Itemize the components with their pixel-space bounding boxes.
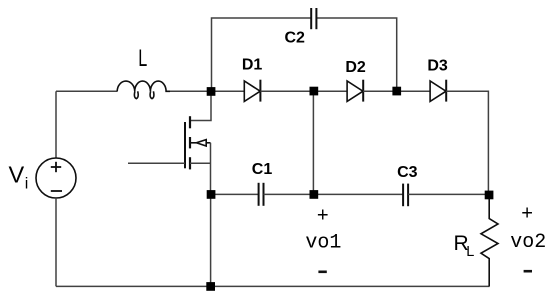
wire node to C3 bbox=[314, 193, 403, 195]
transistor Q1 source wire bbox=[190, 143, 211, 195]
wire bottom rail bbox=[56, 285, 490, 287]
wire D1 to D2 bbox=[260, 90, 347, 92]
wire left rail upper bbox=[55, 91, 57, 158]
wire D3 to load node bbox=[446, 91, 488, 195]
svg-text:+: + bbox=[317, 206, 329, 229]
diode D2 bbox=[347, 80, 363, 102]
svg-text:D2: D2 bbox=[345, 59, 366, 76]
svg-text:C2: C2 bbox=[284, 30, 305, 47]
label vo2 minus bbox=[524, 270, 532, 273]
svg-text:vo2: vo2 bbox=[510, 231, 546, 254]
diode D1 bbox=[244, 80, 260, 102]
wire main rail left bbox=[56, 90, 118, 92]
svg-text:L: L bbox=[138, 45, 147, 72]
label D2 bbox=[345, 59, 366, 76]
svg-text:+: + bbox=[521, 204, 533, 227]
label Vi bbox=[9, 162, 29, 193]
svg-text:C1: C1 bbox=[252, 161, 273, 178]
resistor RL bbox=[481, 195, 498, 286]
capacitor C2 bbox=[311, 8, 316, 29]
svg-text:i: i bbox=[25, 176, 29, 193]
svg-text:D1: D1 bbox=[242, 57, 263, 74]
node D: source-C1 junction bbox=[207, 190, 216, 199]
wire source node to bottom rail bbox=[210, 194, 212, 286]
svg-text:C3: C3 bbox=[397, 164, 418, 181]
transistor Q1 drain wire bbox=[190, 92, 211, 121]
voltage source minus sign bbox=[51, 190, 62, 192]
svg-text:D3: D3 bbox=[427, 58, 448, 75]
transistor Q1 gate bar bbox=[184, 122, 186, 168]
transistor Q1 channel segments bbox=[189, 116, 191, 169]
label C3 bbox=[397, 164, 418, 181]
svg-text:vo1: vo1 bbox=[305, 232, 341, 255]
node C: D2-D3 junction bbox=[392, 87, 401, 96]
label L bbox=[138, 45, 147, 72]
wire top rail right bbox=[317, 18, 397, 91]
capacitor C3 bbox=[403, 184, 408, 207]
wire D1 node to C1 node bbox=[312, 91, 314, 194]
wire top rail left bbox=[212, 18, 312, 92]
label vo2 bbox=[510, 231, 546, 254]
label C2 bbox=[284, 30, 305, 47]
label C1 bbox=[252, 161, 273, 178]
wire mid rail to C1 bbox=[211, 193, 258, 195]
label RL bbox=[454, 232, 475, 260]
transistor Q1 gate lead bbox=[128, 162, 185, 164]
label vo2 plus bbox=[521, 204, 533, 227]
node E: C1-C3 junction bbox=[310, 190, 319, 199]
label D1 bbox=[242, 57, 263, 74]
svg-text:L: L bbox=[466, 244, 474, 260]
capacitor C1 bbox=[259, 183, 264, 206]
wire left rail lower bbox=[55, 198, 57, 286]
node G: bottom rail junction bbox=[206, 282, 215, 291]
node A: inductor-D1-top-drain junction bbox=[207, 87, 216, 96]
wire C1 to node bbox=[264, 193, 314, 195]
wire C3 to load node bbox=[408, 193, 489, 195]
wire inductor to D1 bbox=[170, 90, 244, 92]
node B: D1-D2 junction bbox=[310, 87, 319, 96]
transistor Q1 body arrow bbox=[190, 140, 211, 146]
voltage source plus sign bbox=[51, 162, 61, 172]
label vo1 minus bbox=[318, 270, 326, 273]
label vo1 plus bbox=[317, 206, 329, 229]
label vo1 bbox=[305, 232, 341, 255]
svg-text:V: V bbox=[9, 162, 25, 188]
diode D3 bbox=[430, 80, 446, 102]
wire D2 to D3 bbox=[363, 90, 430, 92]
node F: C3-RL junction bbox=[485, 191, 494, 200]
inductor L bbox=[117, 81, 170, 99]
voltage source Vi circle bbox=[36, 158, 76, 198]
label D3 bbox=[427, 58, 448, 75]
